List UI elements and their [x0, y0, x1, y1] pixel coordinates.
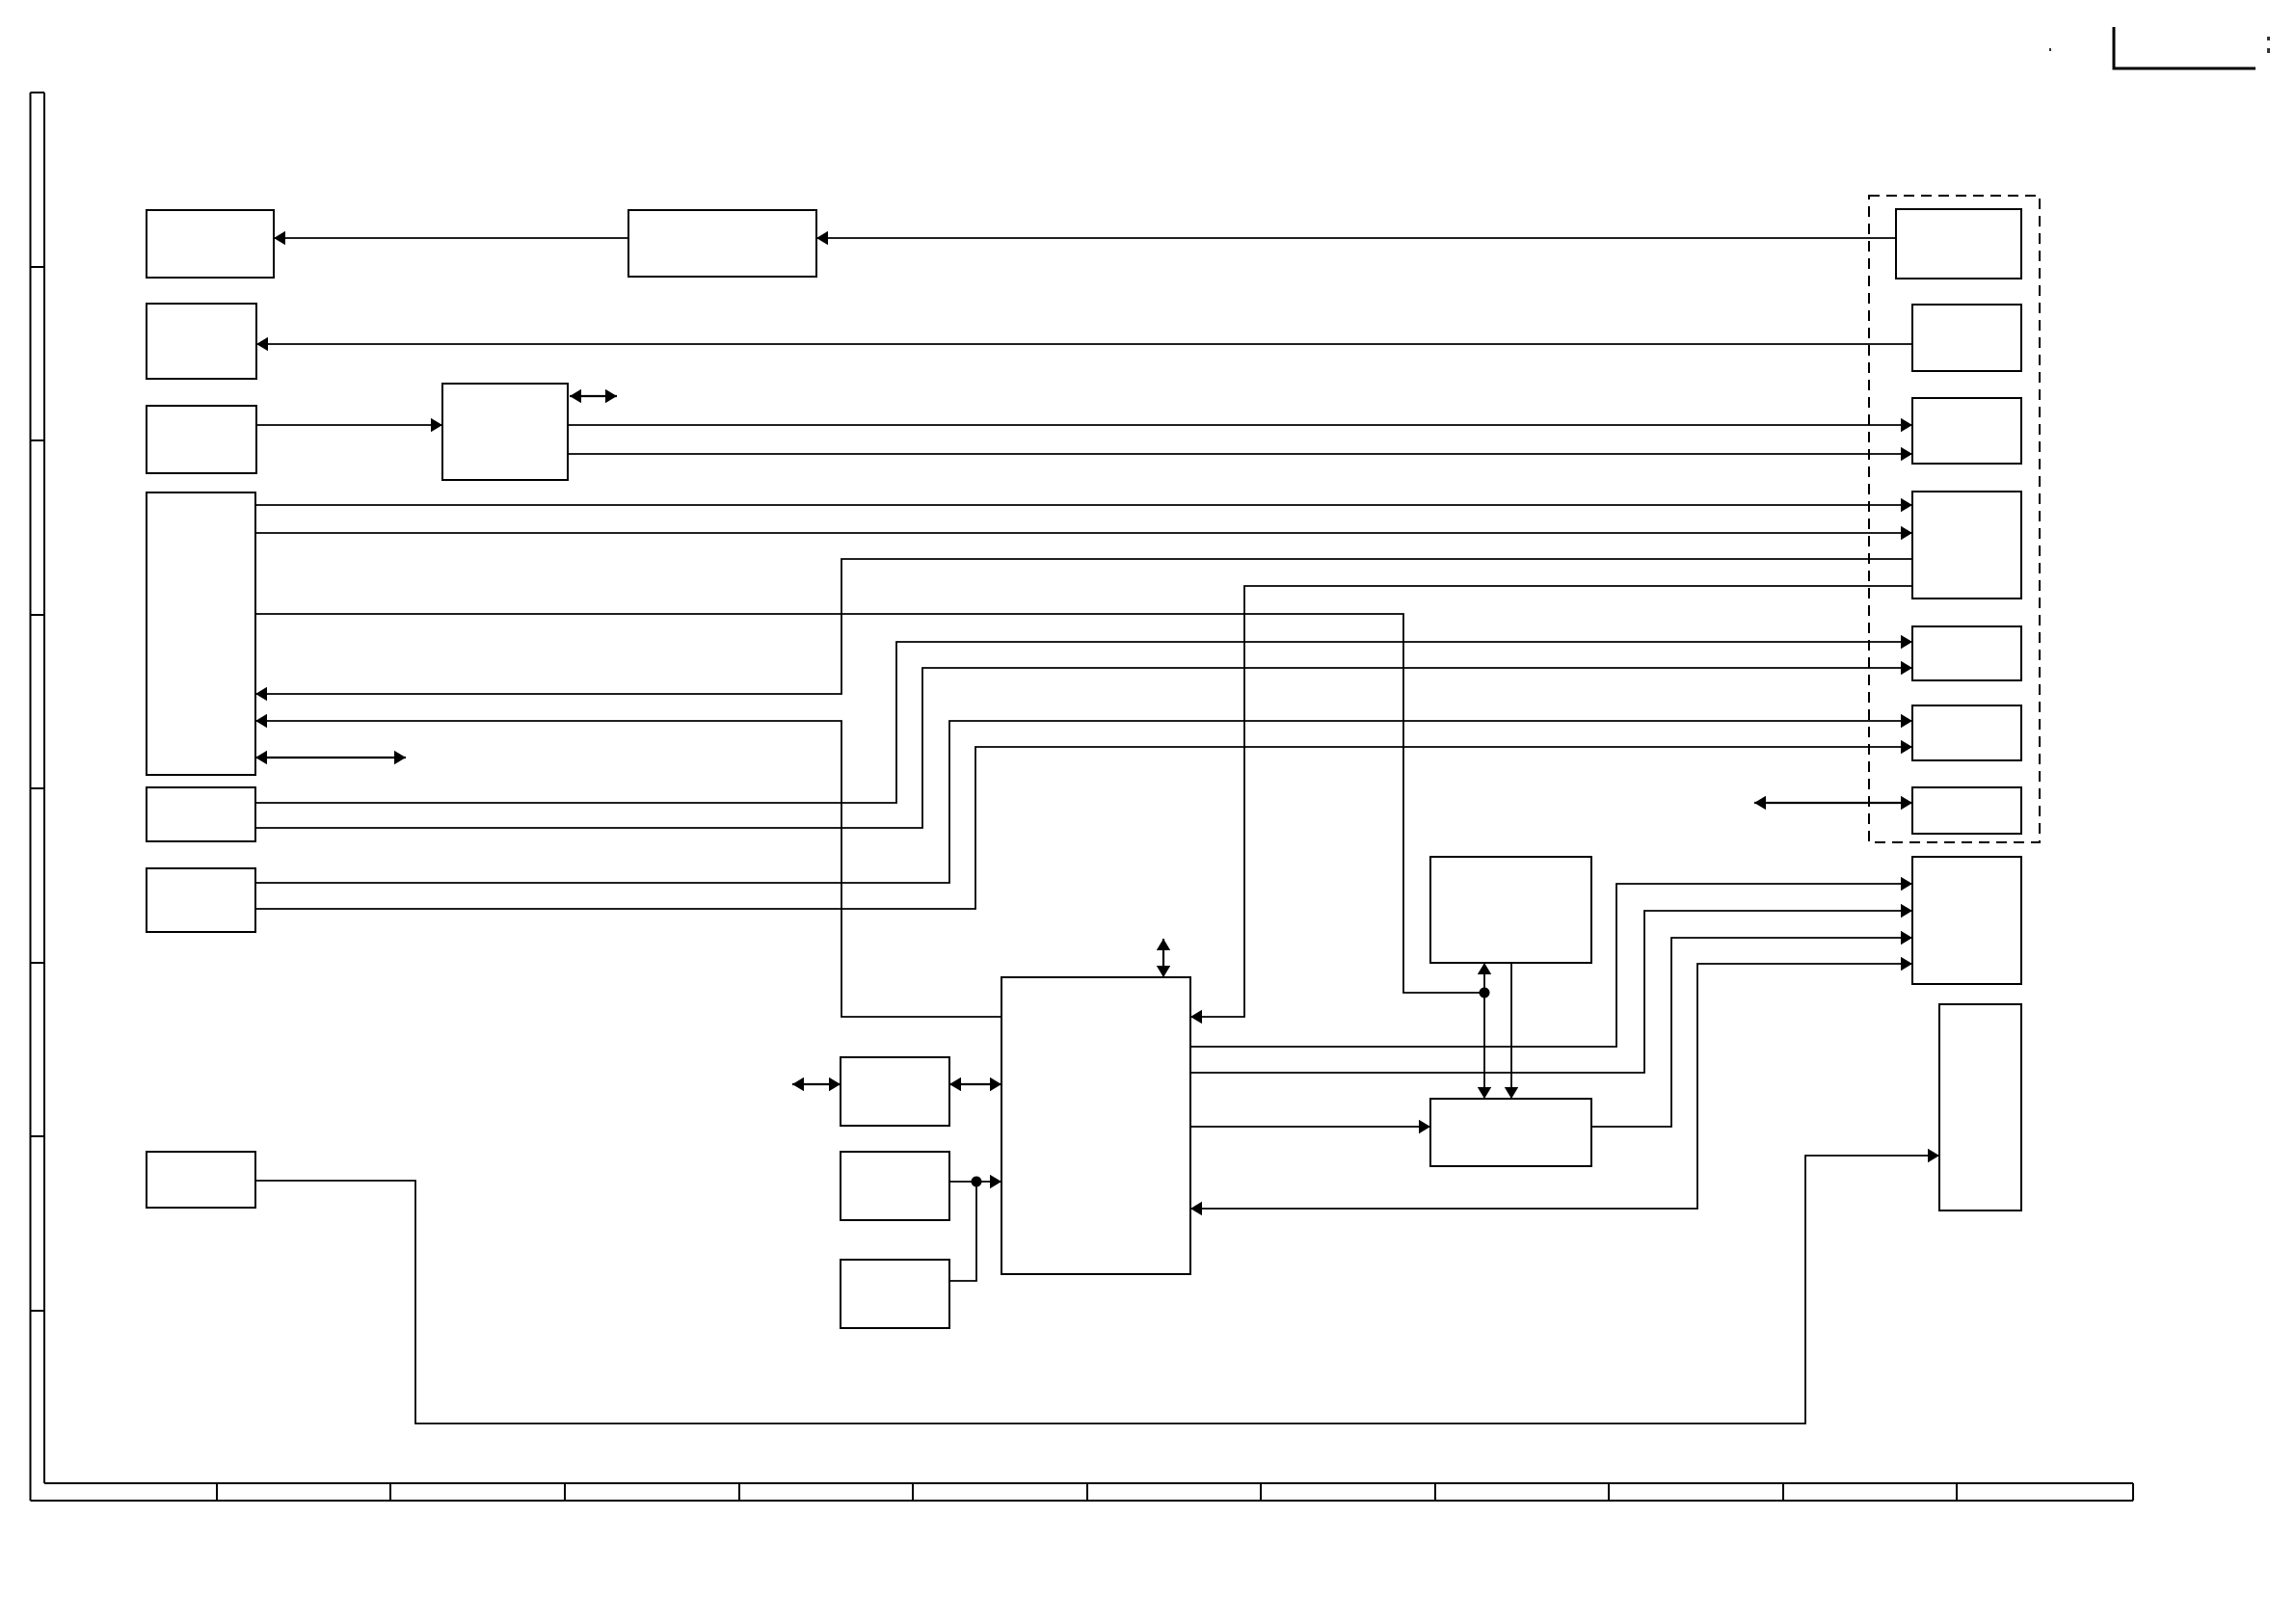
wire P4 riser left into D (arrow into D): [255, 559, 1912, 694]
block I (middle upper): [442, 384, 568, 480]
block C: [147, 406, 256, 473]
wire E to P5 line 1 (arrow into P5): [255, 642, 1912, 803]
block K: [841, 1057, 949, 1126]
wire C to I (arrow into I): [256, 424, 442, 426]
wire F to P6 line 1 (arrow into P6): [255, 721, 1912, 883]
block R (bottom right tall): [1939, 1004, 2021, 1211]
bidirectional stub at I right: [570, 395, 617, 397]
block P3 (right column 3): [1912, 398, 2021, 464]
frame bottom border tick marks: [217, 1483, 1957, 1501]
block E: [147, 787, 255, 841]
wire J left riser into D (arrow into D): [255, 721, 1001, 1017]
block P2 (right column 2): [1912, 305, 2021, 371]
wire P1 to H (arrow into H): [816, 237, 1896, 239]
wire node up into N (arrow into N): [1483, 963, 1485, 993]
block P6 (right column 6): [1912, 705, 2021, 760]
frame left border tick marks: [31, 267, 45, 1311]
block F: [147, 868, 255, 932]
block P1 (right column 1): [1896, 209, 2021, 279]
block P7 (right column 7): [1912, 787, 2021, 834]
wire E to P5 line 2 (arrow into P5): [255, 668, 1912, 828]
block M: [841, 1260, 949, 1328]
wire D to P4 line 2 (arrow into P4): [255, 532, 1912, 534]
block O (middle right lower): [1430, 1099, 1591, 1166]
wire D to P4 line 1 (arrow into P4): [255, 504, 1912, 506]
wire F to P6 line 2 (arrow into P6): [255, 747, 1912, 909]
wire P2 to B (arrow into B): [256, 343, 1912, 345]
frame left inner border line: [43, 93, 45, 1483]
wire D bus to node at N/O (via riser): [255, 614, 1484, 993]
frame left outer border line: [30, 93, 32, 1501]
wire H to A (arrow into A): [274, 237, 628, 239]
block H (top middle): [628, 210, 816, 277]
wire G to R via bottom route (arrow into R): [255, 1156, 1939, 1423]
frame bottom outer border line: [31, 1500, 2134, 1502]
dashed group box (right column): [1869, 196, 2040, 842]
wire I to P3 upper (arrow into P3): [568, 424, 1912, 426]
title block corner mark top right: [2114, 27, 2256, 68]
frame bottom border right cap: [2132, 1483, 2134, 1501]
block L: [841, 1152, 949, 1220]
bidirectional stub into P7: [1754, 802, 1912, 804]
block Q (right, below dashed box): [1912, 857, 2021, 984]
frame left border top cap: [31, 92, 45, 93]
bidirectional stub at J top: [1162, 939, 1164, 977]
bidirectional bus K to J: [949, 1083, 1001, 1085]
wire M up to L junction: [949, 1182, 976, 1281]
block N (middle right upper): [1430, 857, 1591, 963]
block P5 (right column 5): [1912, 626, 2021, 680]
frame bottom inner border line: [44, 1482, 2133, 1484]
block J (central large): [1001, 977, 1190, 1274]
wire O to Q line 3 (arrow into Q): [1591, 938, 1912, 1127]
block A (top left): [147, 210, 274, 278]
junction node dot at N/O riser: [1480, 988, 1490, 998]
page edge specks top right: [2049, 37, 2270, 53]
bidirectional stub at K left: [792, 1083, 841, 1085]
bidirectional stub at D right: [255, 757, 406, 758]
block B: [147, 304, 256, 379]
wire L to J (arrow into J): [949, 1181, 1001, 1183]
wire I to P3 lower (arrow into P3): [568, 453, 1912, 455]
block G (bottom left): [147, 1152, 255, 1208]
block D (tall left): [147, 492, 255, 775]
wire node down into O (arrow into O): [1483, 993, 1485, 1099]
block P4 (right column 4): [1912, 492, 2021, 599]
wire N to O (arrow into O): [1510, 963, 1512, 1099]
wire J to Q line 1 (arrow into Q): [1190, 884, 1912, 1047]
wire J to O (arrow into O): [1190, 1126, 1430, 1128]
bidirectional wire J to Q line 4 (arrows into J and Q): [1190, 964, 1912, 1209]
junction node dot on L wire: [972, 1177, 982, 1187]
wire J to Q line 2 (arrow into Q): [1190, 911, 1912, 1073]
wire P4 to J right side (arrow into J): [1190, 586, 1912, 1017]
